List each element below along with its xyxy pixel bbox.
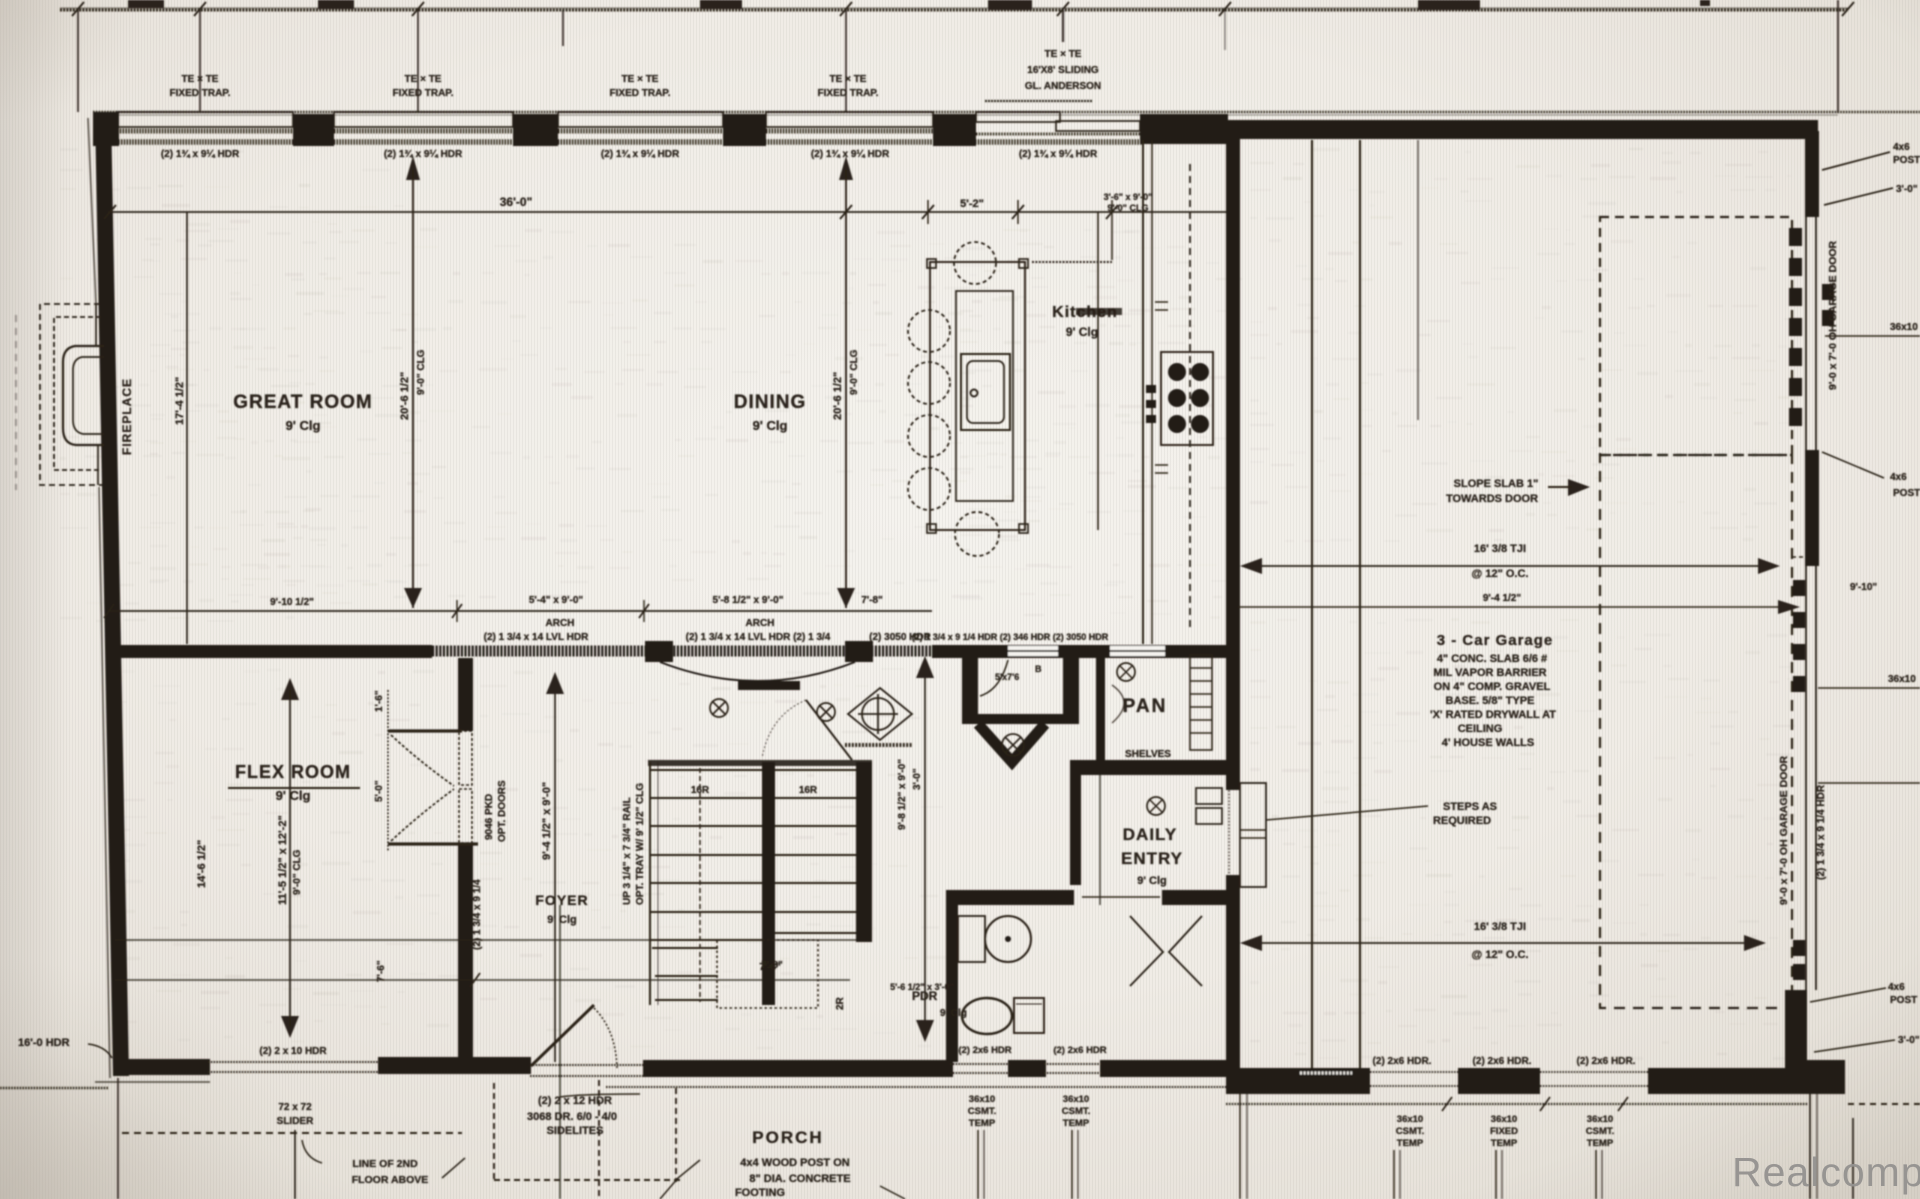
svg-text:9046 PKD: 9046 PKD (484, 794, 495, 840)
svg-text:5'-8 1/2" x 9'-0": 5'-8 1/2" x 9'-0" (713, 595, 784, 606)
powder toilet (962, 998, 1012, 1034)
svg-text:FLOOR ABOVE: FLOOR ABOVE (352, 1174, 429, 1186)
svg-text:CSMT.: CSMT. (1396, 1126, 1425, 1137)
top wall outer face line (93, 111, 1920, 113)
hall vertical dim (924, 668, 926, 1030)
right edge leader lines + texts (1822, 152, 1890, 170)
svg-text:FIXED TRAP.: FIXED TRAP. (393, 88, 454, 99)
svg-text:3'-0": 3'-0" (1896, 184, 1918, 195)
left outside dim (0, 1087, 108, 1089)
great room vertical dim line (186, 212, 188, 644)
svg-text:72 x 72: 72 x 72 (278, 1102, 312, 1113)
garage top wall (thick) (1144, 120, 1818, 139)
MAIN7 (1226, 137, 1920, 1199)
svg-text:TEMP: TEMP (969, 1118, 996, 1129)
MAIN6 (0, 905, 1226, 1199)
svg-text:CSMT.: CSMT. (1062, 1106, 1091, 1117)
diamond light fixture (848, 688, 912, 740)
svg-text:FOOTING: FOOTING (735, 1187, 785, 1199)
svg-text:CSMT.: CSMT. (968, 1106, 997, 1117)
small counter hash right wall (1155, 301, 1168, 303)
svg-text:LINE OF 2ND: LINE OF 2ND (352, 1158, 418, 1170)
svg-text:(2) 2x6 HDR.: (2) 2x6 HDR. (1473, 1056, 1532, 1067)
svg-text:(2) 1¾ x 9¼ HDR: (2) 1¾ x 9¼ HDR (384, 149, 463, 160)
flex room right wall (458, 658, 473, 731)
svg-text:(2) 1 3/4 x 9 1/4 HDR (2) 346: (2) 1 3/4 x 9 1/4 HDR (2) 346 HDR (2) 30… (912, 632, 1109, 642)
firebox (63, 346, 104, 445)
svg-text:SLOPE SLAB 1": SLOPE SLAB 1" (1454, 478, 1539, 490)
svg-text:FIXED: FIXED (1490, 1126, 1518, 1137)
svg-text:POST: POST (1893, 488, 1920, 499)
up arrows under wall (vertical dims) (406, 156, 853, 180)
steps as required note (1433, 801, 1497, 827)
svg-text:TEMP: TEMP (1397, 1138, 1424, 1149)
svg-text:B: B (1035, 664, 1042, 674)
powder sink (958, 916, 985, 962)
svg-text:16' 3/8 TJI: 16' 3/8 TJI (1474, 543, 1526, 555)
svg-text:GREAT ROOM: GREAT ROOM (233, 392, 372, 413)
svg-text:11'-5 1/2" x 12'-2": 11'-5 1/2" x 12'-2" (277, 815, 289, 905)
svg-text:16R: 16R (799, 785, 818, 796)
GREAT ROOM label (233, 392, 806, 433)
svg-text:20'-6 1/2": 20'-6 1/2" (832, 372, 844, 420)
PDR label (912, 989, 967, 1019)
svg-text:5'-0": 5'-0" (374, 780, 385, 802)
svg-text:MIL VAPOR BARRIER: MIL VAPOR BARRIER (1433, 667, 1546, 679)
svg-text:4x6: 4x6 (1893, 142, 1910, 153)
texts above interior wall (484, 618, 1109, 643)
dashed storage rects (1600, 217, 1792, 455)
island inner counter (956, 291, 1013, 501)
svg-text:FIREPLACE: FIREPLACE (120, 378, 134, 455)
kitchen island outer (930, 262, 1025, 530)
stairs (650, 770, 858, 1000)
texts under powder wall (890, 982, 1107, 1056)
svg-text:4' HOUSE WALLS: 4' HOUSE WALLS (1442, 737, 1534, 749)
outer sheathing line left (88, 118, 96, 305)
garage dim arrow 1 (y=566) (1248, 565, 1772, 567)
right flight treads (775, 769, 858, 771)
FOYER label (535, 892, 588, 926)
svg-text:(2) 2x6 HDR.: (2) 2x6 HDR. (1373, 1056, 1432, 1067)
interior dim line y=212 (108, 211, 1226, 213)
down arrow of great room dim at y610 (404, 588, 422, 608)
MAIN5 (710, 648, 1226, 1062)
svg-text:7'-8": 7'-8" (861, 595, 883, 606)
FLEX ROOM label (235, 762, 351, 803)
svg-text:REQUIRED: REQUIRED (1433, 815, 1491, 827)
line of 2nd floor dashed (122, 1132, 462, 1134)
svg-text:9'-0 x 7'-0 OH GARAGE DOOR: 9'-0 x 7'-0 OH GARAGE DOOR (1827, 240, 1839, 390)
powder windows in bottom wall (950, 1063, 1010, 1065)
svg-text:36x10: 36x10 (969, 1094, 995, 1105)
svg-text:@ 12" O.C.: @ 12" O.C. (1472, 949, 1529, 961)
left exterior wall (slight lean) (95, 112, 129, 1076)
svg-text:STEPS AS: STEPS AS (1443, 801, 1497, 813)
svg-text:4x4 WOOD POST ON: 4x4 WOOD POST ON (740, 1157, 849, 1169)
foyer stoop dotted rect (717, 940, 818, 1008)
svg-text:OPT. DOORS: OPT. DOORS (497, 780, 508, 842)
flex vertical dim (281, 678, 299, 700)
svg-text:3068 DR. 6/0 - 4/0: 3068 DR. 6/0 - 4/0 (527, 1111, 617, 1123)
svg-text:'X' RATED DRYWALL AT: 'X' RATED DRYWALL AT (1430, 709, 1556, 721)
svg-text:3'-0": 3'-0" (1898, 1035, 1920, 1046)
texts under flex window (259, 1046, 327, 1127)
svg-text:TEMP: TEMP (1587, 1138, 1614, 1149)
window hash on bottom wall left (1300, 1072, 1352, 1075)
svg-text:FLEX ROOM: FLEX ROOM (235, 762, 351, 782)
sill line under bottom wall (606, 1086, 1226, 1088)
vertical witness lines from top dim down to wall (78, 0, 1838, 113)
tick marks on top dimension line (72, 2, 1854, 16)
svg-text:36x10: 36x10 (1397, 1114, 1423, 1125)
svg-text:(2) 1 3/4 x 14 LVL HDR (2) 1 3: (2) 1 3/4 x 14 LVL HDR (2) 1 3/4 (686, 632, 831, 643)
svg-text:PORCH: PORCH (752, 1128, 823, 1147)
svg-text:8" DIA. CONCRETE: 8" DIA. CONCRETE (749, 1173, 850, 1185)
garage right wall segments (1785, 131, 1845, 1094)
svg-text:9'-10": 9'-10" (1850, 582, 1877, 593)
MAIN2 (16, 112, 1226, 1078)
svg-text:3'-6" x 9'-0": 3'-6" x 9'-0" (1104, 192, 1153, 202)
svg-text:TE × TE: TE × TE (830, 74, 867, 85)
svg-text:20'-6 1/2": 20'-6 1/2" (399, 372, 411, 420)
svg-text:CSMT.: CSMT. (1586, 1126, 1615, 1137)
top wall: window sills (thin) (93, 112, 1144, 142)
svg-text:POST: POST (1893, 155, 1920, 166)
top dimension line (60, 9, 1848, 12)
svg-text:ARCH: ARCH (746, 618, 775, 629)
svg-text:UP 3 1/4" x 7 3/4" RAIL: UP 3 1/4" x 7 3/4" RAIL (622, 797, 633, 905)
svg-text:9' Clg: 9' Clg (276, 788, 311, 803)
header hash portions (432, 646, 932, 657)
svg-text:ENTRY: ENTRY (1121, 849, 1183, 868)
arch elevation curve (660, 662, 855, 681)
top wall solid posts (93, 112, 1228, 146)
solid wall from pantry to garage (932, 645, 1226, 658)
svg-text:FIXED TRAP.: FIXED TRAP. (170, 88, 231, 99)
dim line y=610 (108, 610, 932, 612)
svg-text:(2) 2x6 HDR.: (2) 2x6 HDR. (1577, 1056, 1636, 1067)
angled niche below closet (978, 724, 1045, 762)
counter edges right of island (1032, 261, 1112, 263)
svg-text:SLIDER: SLIDER (277, 1116, 314, 1127)
svg-text:(2) 1 3/4 x 9 1/4 HDR: (2) 1 3/4 x 9 1/4 HDR (1816, 784, 1827, 880)
svg-text:(2) 1¾ x 9¼ HDR: (2) 1¾ x 9¼ HDR (1019, 149, 1098, 160)
svg-text:(2) 2x6 HDR: (2) 2x6 HDR (958, 1045, 1011, 1056)
svg-text:TEMP: TEMP (1491, 1138, 1518, 1149)
svg-text:3 - Car Garage: 3 - Car Garage (1437, 632, 1554, 649)
svg-text:2R: 2R (835, 996, 846, 1010)
zigzag bifold doors (1130, 916, 1163, 986)
svg-text:SHELVES: SHELVES (1125, 749, 1171, 760)
stair texts (691, 785, 818, 971)
svg-text:GL. ANDERSON: GL. ANDERSON (1025, 81, 1101, 92)
slope slab note (1446, 478, 1538, 505)
sliding door panels (976, 112, 1060, 122)
svg-text:5'-2": 5'-2" (960, 198, 984, 210)
MAIN4 (115, 658, 872, 1062)
svg-text:9'-0 x 7'-0 OH GARAGE DOOR: 9'-0 x 7'-0 OH GARAGE DOOR (1778, 755, 1790, 905)
svg-text:36x10: 36x10 (1063, 1094, 1089, 1105)
svg-text:9'-8 1/2" x 9'-0": 9'-8 1/2" x 9'-0" (897, 759, 908, 830)
svg-text:1'-6": 1'-6" (374, 690, 385, 712)
svg-text:OPT. TRAY W/ 9' 1/2" CLG: OPT. TRAY W/ 9' 1/2" CLG (635, 783, 646, 905)
svg-text:(2) 1¾ x 9¼ HDR: (2) 1¾ x 9¼ HDR (811, 149, 890, 160)
svg-text:DAILY: DAILY (1123, 825, 1177, 844)
svg-text:9'-0" CLG: 9'-0" CLG (849, 349, 860, 395)
closet (962, 658, 978, 718)
svg-text:7'-6": 7'-6" (376, 960, 387, 982)
svg-text:TE × TE: TE × TE (622, 74, 659, 85)
front door opening + leaf (530, 1064, 645, 1066)
svg-text:TOWARDS DOOR: TOWARDS DOOR (1446, 493, 1538, 505)
svg-text:14'-6 1/2": 14'-6 1/2" (196, 840, 208, 888)
PAN room (1096, 648, 1105, 760)
svg-text:(2) 1 3/4 x 14 LVL HDR: (2) 1 3/4 x 14 LVL HDR (484, 632, 589, 643)
garage dim arrow 2 (y=943) (1248, 942, 1758, 944)
svg-text:4x6: 4x6 (1888, 982, 1905, 993)
svg-text:3'-0": 3'-0" (912, 768, 923, 790)
svg-text:FOYER: FOYER (535, 892, 588, 908)
svg-text:36x10: 36x10 (1890, 322, 1918, 333)
svg-text:Realcomp: Realcomp (1732, 1149, 1920, 1195)
svg-text:ON 4" COMP. GRAVEL: ON 4" COMP. GRAVEL (1434, 681, 1551, 693)
svg-text:(2) 2 x 10 HDR: (2) 2 x 10 HDR (259, 1046, 327, 1057)
powder left wall (946, 905, 958, 1062)
right wall door opening 1 (double lines + panel hash) (1805, 217, 1807, 450)
cooktop (1161, 352, 1213, 445)
svg-text:16'-0 HDR: 16'-0 HDR (18, 1037, 70, 1049)
svg-text:36'-0": 36'-0" (500, 195, 533, 209)
stair center wall (762, 762, 775, 1005)
svg-text:9' Clg: 9' Clg (1066, 325, 1098, 339)
svg-text:5'x7'6: 5'x7'6 (995, 672, 1019, 682)
svg-text:36x10: 36x10 (1491, 1114, 1517, 1125)
porch (493, 1083, 495, 1182)
svg-text:TE × TE: TE × TE (1045, 49, 1082, 60)
ceiling fixtures (710, 699, 835, 721)
svg-text:4x6: 4x6 (1890, 472, 1907, 483)
svg-text:ARCH: ARCH (546, 618, 575, 629)
svg-text:9' Clg: 9' Clg (1137, 875, 1167, 887)
Kitchen label (1052, 304, 1118, 339)
svg-text:(2) 1¾ x 9¼ HDR: (2) 1¾ x 9¼ HDR (161, 149, 240, 160)
svg-text:(2) 1¾ x 9¼ HDR: (2) 1¾ x 9¼ HDR (601, 149, 680, 160)
svg-text:17'-4 1/2": 17'-4 1/2" (174, 377, 186, 425)
MAIN3 (908, 140, 1213, 644)
headers above openings (1373, 1056, 1636, 1067)
svg-text:9'-4 1/2": 9'-4 1/2" (1483, 593, 1522, 604)
verticals below bottom-right corner (1809, 1094, 1811, 1199)
svg-text:POST: POST (1890, 995, 1917, 1006)
wall below pantry (1070, 760, 1226, 775)
svg-text:4" CONC. SLAB 6/6 #: 4" CONC. SLAB 6/6 # (1437, 653, 1547, 665)
svg-text:PAN: PAN (1123, 696, 1168, 717)
svg-text:9' Clg: 9' Clg (286, 418, 321, 433)
stair right wall (856, 762, 872, 942)
svg-text:5'-4" x 9'-0": 5'-4" x 9'-0" (529, 595, 584, 606)
door from daily entry to garage + landing (1240, 783, 1266, 887)
svg-text:9' Clg: 9' Clg (940, 1008, 967, 1019)
svg-text:TEMP: TEMP (1063, 1118, 1090, 1129)
vertical dim rotated texts (399, 349, 860, 420)
garage interior verticals (1311, 140, 1313, 1068)
island sink (961, 354, 1010, 430)
stair top edge (648, 760, 872, 766)
stair left rail (649, 762, 651, 1005)
ticks on sill dimension (1442, 1097, 1452, 1111)
second dim line y=607 (1238, 606, 1790, 608)
svg-text:DINING: DINING (734, 392, 807, 413)
MAIN8 (1778, 131, 1920, 1199)
header texts under windows (161, 149, 1098, 160)
svg-text:9'-10 1/2": 9'-10 1/2" (270, 597, 314, 608)
sill line below garage wall (1226, 1103, 1808, 1105)
dim line y=940/980 across flex/foyer (115, 939, 858, 941)
svg-text:SIDELITES: SIDELITES (547, 1125, 604, 1137)
dim text blobs above top line (128, 0, 1710, 10)
bottom right leaders (1810, 988, 1886, 1002)
dashed line at y557 into right wall (1792, 556, 1806, 558)
bottom wall of house (113, 1057, 1226, 1077)
left flight treads (650, 769, 762, 771)
svg-text:7'-8": 7'-8" (759, 962, 781, 973)
MAIN_DRAWING (60, 0, 1920, 608)
faint dashed line far left (15, 315, 17, 490)
interior wall y=645 (110, 618, 1226, 690)
svg-text:16' 3/8 TJI: 16' 3/8 TJI (1474, 921, 1526, 933)
svg-text:9' Clg: 9' Clg (547, 914, 577, 926)
svg-text:36x10: 36x10 (1888, 674, 1916, 685)
texts under powder windows (968, 1094, 1091, 1129)
svg-text:5'-6 1/2" x 3'-0": 5'-6 1/2" x 3'-0" (890, 982, 954, 992)
powder top wall (946, 890, 1074, 905)
foyer dim line (554, 685, 556, 1062)
flex window opening (208, 1061, 380, 1063)
garage left wall (1226, 137, 1240, 790)
svg-text:TE × TE: TE × TE (182, 74, 219, 85)
window labels above top wall (170, 49, 1102, 99)
svg-text:@ 12" O.C.: @ 12" O.C. (1472, 568, 1529, 580)
svg-text:(2) 1 3/4 x 9 1/4: (2) 1 3/4 x 9 1/4 (472, 879, 483, 950)
svg-text:(2) 2 x 12 HDR: (2) 2 x 12 HDR (538, 1095, 612, 1107)
right wall door opening 2 (1805, 566, 1807, 990)
svg-text:9'-0" CLG: 9'-0" CLG (416, 349, 427, 395)
svg-text:9' Clg: 9' Clg (753, 418, 788, 433)
svg-text:CEILING: CEILING (1458, 723, 1503, 735)
svg-text:9'-4 1/2" x 9'-0": 9'-4 1/2" x 9'-0" (541, 782, 553, 860)
stool circles (908, 242, 996, 510)
svg-text:FIXED TRAP.: FIXED TRAP. (610, 88, 671, 99)
svg-text:TE × TE: TE × TE (405, 74, 442, 85)
svg-text:BASE. 5/8" TYPE: BASE. 5/8" TYPE (1446, 695, 1535, 707)
svg-text:36x10: 36x10 (1587, 1114, 1613, 1125)
french doors of flex room (459, 731, 472, 785)
bench at garage wall (1196, 788, 1222, 804)
svg-text:9'-0" CLG: 9'-0" CLG (292, 849, 303, 895)
garage door openings bottom (1370, 1071, 1458, 1073)
3-car garage text block (1430, 632, 1556, 749)
fireplace bump-out dashed outer box (40, 304, 102, 485)
garage bottom wall (1226, 1068, 1845, 1094)
texts under garage wall (1396, 1114, 1615, 1149)
svg-text:16'X8' SLIDING: 16'X8' SLIDING (1027, 65, 1099, 76)
svg-text:FIXED TRAP.: FIXED TRAP. (818, 88, 879, 99)
DAILY ENTRY (1121, 825, 1183, 887)
svg-text:(2) 2x6 HDR: (2) 2x6 HDR (1053, 1045, 1106, 1056)
svg-text:16R: 16R (691, 785, 710, 796)
